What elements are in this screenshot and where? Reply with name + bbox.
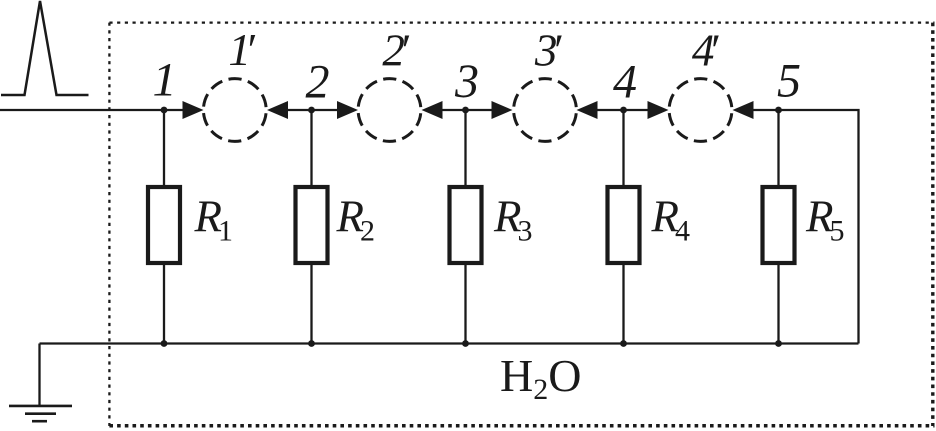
- dashed circle gap 2': [358, 79, 421, 142]
- junction dot node 3 top: [462, 107, 469, 114]
- arrow into gap 2' from node 3: [422, 101, 443, 119]
- junction dot node 2 top: [308, 107, 315, 114]
- svg-text:R4: R4: [651, 191, 691, 247]
- junction dot node 2 bottom: [308, 340, 315, 347]
- resistor R1 body: [148, 187, 180, 263]
- svg-text:4: 4: [613, 56, 637, 109]
- resistor R3 body: [450, 187, 482, 263]
- resistor R3 top lead: [464, 110, 466, 187]
- wire node 2 leads: [286, 109, 340, 111]
- arrow into gap 4' from node 5: [733, 101, 754, 119]
- enclosure dotted border bottom edge: [109, 424, 934, 428]
- resistor R1 top lead: [163, 110, 165, 187]
- arrow into gap 4' from node 4: [648, 101, 669, 119]
- dashed circle gap 4': [669, 79, 732, 142]
- input pulse symbol: [1, 1, 89, 95]
- svg-text:2′: 2′: [382, 26, 410, 76]
- ground symbol: [9, 406, 72, 421]
- wire node 5 lead left: [751, 109, 779, 111]
- input wire to node 1: [0, 109, 186, 111]
- svg-text:3′: 3′: [534, 26, 563, 76]
- wire node 3 leads: [440, 109, 495, 111]
- wire node 4 leads: [595, 109, 651, 111]
- junction dot node 1 top: [161, 107, 168, 114]
- arrow into gap 1' from node 1: [183, 101, 204, 119]
- resistor R1 bottom lead: [163, 265, 165, 344]
- junction dot node 4 top: [620, 107, 627, 114]
- enclosure dotted border right edge: [931, 23, 934, 426]
- svg-text:H2O: H2O: [500, 350, 581, 406]
- junction dot node 3 bottom: [462, 340, 469, 347]
- junction dot node 1 bottom: [161, 340, 168, 347]
- svg-text:3: 3: [454, 55, 479, 108]
- bottom rail wire: [40, 342, 859, 344]
- wire node 5 to right corner: [779, 110, 859, 344]
- resistor R2 body: [296, 187, 328, 263]
- svg-text:1: 1: [153, 54, 177, 107]
- resistor R5 top lead: [777, 110, 779, 187]
- junction dot node 5 bottom: [775, 340, 782, 347]
- svg-text:R2: R2: [336, 191, 376, 247]
- arrow into gap 3' from node 3: [492, 101, 513, 119]
- resistor R2 top lead: [310, 110, 312, 187]
- enclosure dotted border top edge: [109, 21, 934, 23]
- ground drop wire: [38, 344, 40, 406]
- svg-text:R3: R3: [493, 191, 533, 247]
- resistor R4 top lead: [622, 110, 624, 187]
- resistor R4 body: [608, 187, 640, 263]
- arrow into gap 2' from node 2: [337, 101, 358, 119]
- svg-text:R5: R5: [805, 191, 845, 247]
- dashed circle gap 3': [514, 79, 577, 142]
- arrow into gap 3' from node 4: [577, 101, 598, 119]
- arrow into gap 1' from node 2: [267, 101, 288, 119]
- resistor R5 body: [763, 187, 795, 263]
- junction dot node 4 bottom: [620, 340, 627, 347]
- resistor R2 bottom lead: [310, 265, 312, 344]
- enclosure dotted border left edge: [108, 23, 110, 426]
- resistor R3 bottom lead: [464, 265, 466, 344]
- junction dot node 5 top: [775, 107, 782, 114]
- svg-text:4′: 4′: [692, 26, 720, 76]
- dashed circle gap 1': [203, 79, 266, 142]
- svg-text:R1: R1: [194, 191, 234, 247]
- svg-text:2: 2: [306, 56, 330, 109]
- svg-text:5: 5: [777, 55, 801, 108]
- svg-text:1′: 1′: [228, 25, 256, 75]
- resistor R5 bottom lead: [777, 265, 779, 344]
- resistor R4 bottom lead: [622, 265, 624, 344]
